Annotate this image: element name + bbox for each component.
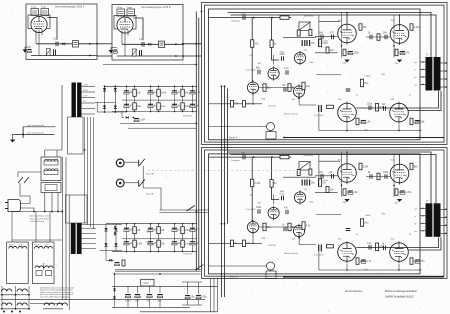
svg-text:1M: 1M	[196, 105, 199, 108]
transformer secondary lead 3 B	[441, 232, 447, 234]
ladder A col 6 wire	[192, 86, 194, 111]
elco row2 box A	[28, 49, 32, 51]
svg-text:25u: 25u	[319, 171, 324, 174]
output cap wire a	[187, 282, 189, 294]
grid cap C8 A	[332, 35, 334, 40]
phase splitter V2a A	[294, 51, 305, 65]
rectifier2 diode D12	[114, 228, 117, 231]
wire selector to channel B	[160, 209, 209, 211]
regulator cap wire 1	[137, 287, 139, 294]
resistor R7 A	[297, 30, 300, 36]
wire input 2 A	[254, 17, 291, 19]
node tone feed B	[298, 237, 300, 239]
resistor R11 A	[326, 47, 329, 53]
ladder B diode top	[114, 226, 117, 229]
transformer secondary lead 0 A	[441, 62, 447, 64]
terminal dot b	[11, 311, 13, 313]
psu B drop wire	[105, 251, 107, 261]
ground T1 B	[344, 199, 349, 202]
output tube T2 A	[390, 23, 409, 45]
ladder B col 5 top node	[182, 223, 184, 225]
transformer tap node 2 A	[422, 76, 423, 77]
svg-text:5k6: 5k6	[319, 32, 324, 35]
power transformer Tr2 frame	[66, 195, 88, 223]
psu interconnect wire 0	[84, 117, 86, 223]
smoothing elco Gl	[134, 118, 139, 120]
wire lamp down A	[270, 131, 272, 132]
ladder A res 1a	[133, 89, 137, 96]
power transformer Tr1	[72, 83, 82, 118]
grid feed wire T2 B	[393, 155, 395, 198]
svg-text:Masse Chassis: Masse Chassis	[284, 114, 298, 116]
node row1 a box A	[89, 43, 91, 45]
anode wire T4 B	[408, 237, 441, 250]
anode resistor R4 A	[288, 84, 291, 92]
grid cap C8 B	[332, 174, 334, 179]
psu B series diode	[109, 259, 112, 262]
ladder B cap 6a	[190, 227, 195, 229]
cathode resistor T3 A	[356, 118, 359, 125]
cathode resistor T4 B	[410, 258, 413, 265]
psu interconnect wire 1	[87, 117, 89, 225]
selector switch S2 contact	[187, 206, 195, 212]
svg-text:1M: 1M	[258, 203, 261, 205]
regulator cap wire 3	[159, 287, 161, 294]
choke node r2a	[1, 308, 3, 310]
cathode drop T3 B	[346, 264, 348, 270]
wire row1 box A	[36, 43, 97, 45]
svg-text:2200u: 2200u	[125, 301, 132, 303]
bus node d	[224, 85, 226, 87]
output cap wire a low	[187, 300, 189, 306]
mains node x44.8	[44, 211, 46, 213]
svg-text:Tr: Tr	[426, 53, 428, 57]
svg-text:erst unter vollem Signal abgle: erst unter vollem Signal abgleichen.	[40, 296, 70, 299]
wire plug to switch 2	[21, 208, 35, 212]
svg-text:Pegel: Pegel	[127, 7, 133, 9]
tube shield box A	[28, 15, 50, 29]
svg-text:0,25u: 0,25u	[323, 180, 329, 182]
tube V A (EF86)	[31, 16, 47, 32]
svg-text:Vorverstarkergruppe 10/26 A: Vorverstarkergruppe 10/26 A	[55, 5, 85, 8]
choke node r2c	[28, 308, 30, 310]
svg-text:100k: 100k	[383, 171, 389, 174]
bus node i	[195, 269, 197, 271]
ladder A col 2 bottom node	[150, 111, 152, 113]
cathode elco T4 A	[415, 120, 420, 122]
svg-text:uber Schutzschalter: uber Schutzschalter	[30, 217, 50, 220]
wire input A	[209, 17, 254, 19]
svg-text:zum Verstarker A: zum Verstarker A	[27, 124, 44, 127]
ladder B cap 4a	[172, 227, 177, 229]
ladder B col 3 bottom node	[158, 251, 160, 253]
ladder B col 6 wire	[192, 224, 194, 252]
wire V1a V1b B	[251, 187, 253, 222]
anode wire T2 B	[231, 155, 437, 204]
ladder A col 0 bottom node	[126, 111, 128, 113]
tb2 inner wire	[43, 263, 45, 270]
rectifier diode D3	[103, 105, 106, 108]
ladder B top rail	[106, 223, 197, 225]
transformer Tr1 tap 0	[82, 86, 95, 88]
svg-text:Stufe B: Stufe B	[229, 274, 238, 278]
anode stem T1 A	[346, 13, 348, 23]
svg-text:Masse Chassis: Masse Chassis	[284, 253, 298, 255]
svg-text:Klang: Klang	[117, 7, 122, 9]
lamp assembly box B	[266, 271, 276, 279]
secondary terminal 2 A	[445, 78, 447, 80]
node row2 a box A	[89, 55, 91, 57]
coupling cap C5 B	[284, 227, 286, 232]
ladder A col 6 bottom node	[192, 111, 194, 113]
bridge2 rail right	[115, 224, 117, 250]
transformer Tr1 tap 5	[82, 113, 95, 115]
psu interconnect wire 2	[90, 117, 92, 227]
svg-text:Pegel: Pegel	[41, 7, 47, 9]
svg-text:Tr: Tr	[426, 199, 428, 203]
bridge1 node a	[104, 85, 106, 87]
screen resistor T1 B	[359, 163, 362, 170]
wire lower grid A	[315, 52, 338, 54]
mains wire left 3	[68, 195, 70, 310]
node row1 edge box A	[96, 43, 98, 45]
rectifier diode D2	[114, 88, 117, 91]
mains filter coil 2	[44, 171, 58, 175]
balance trimmer wiper A	[300, 22, 311, 30]
ground T2 B	[397, 199, 402, 202]
ladder A col 1 bottom node	[134, 111, 136, 113]
heater transformer box TB1	[7, 242, 29, 284]
coupling cap C3 B	[282, 196, 284, 201]
ladder A cap 0a	[124, 90, 129, 92]
transformer secondary lead 0 B	[441, 208, 447, 210]
screen resistor T2 A	[410, 24, 413, 31]
coupling cap C2 A	[258, 70, 260, 75]
tone resistor A	[327, 105, 334, 108]
heater run below boxes	[103, 64, 196, 66]
output tube T1 B	[338, 162, 357, 184]
node lamp B	[283, 276, 285, 278]
ladder A col 1 wire	[134, 86, 136, 111]
svg-text:25u: 25u	[311, 182, 316, 185]
wire input 2 B	[254, 156, 291, 158]
bus wire heater 1	[195, 12, 197, 270]
node lamp A	[283, 137, 285, 139]
ladder B bottom rail	[112, 250, 197, 252]
wire lamp left A	[209, 126, 267, 128]
wire box B to bus row1	[183, 43, 202, 45]
transformer secondary lead 2 A	[441, 78, 447, 80]
bridge1 node d	[114, 111, 116, 113]
terminal dot c	[19, 311, 21, 313]
regulator feed rail 1	[115, 269, 200, 271]
choke vert 2	[15, 286, 17, 309]
anode resistor R4 B	[288, 223, 291, 231]
bus to bottom 2	[213, 279, 215, 312]
svg-text:470: 470	[234, 103, 239, 106]
ladder A bottom rail	[112, 111, 197, 113]
svg-text:50u: 50u	[191, 296, 196, 299]
ladder A col 3 top node	[158, 86, 160, 88]
svg-text:220k: 220k	[367, 103, 373, 106]
elco row2 box B	[114, 49, 118, 51]
heater primary coil TB2 a	[35, 246, 43, 248]
heater secondary coil TB2 a	[35, 266, 43, 268]
wire tone down A	[319, 113, 420, 131]
grid node T2 A	[393, 45, 395, 47]
ladder B col 2 wire	[150, 224, 152, 252]
ladder A col 4 bottom node	[174, 111, 176, 113]
transformer Tr1 tap 4	[82, 108, 95, 110]
cathode pot cluster box A	[47, 49, 51, 56]
filterbox down 2	[51, 193, 53, 212]
cathode resistor T2 B	[395, 189, 398, 196]
supply tap node	[22, 133, 24, 135]
bus node e	[195, 123, 197, 125]
regulator cap 2	[147, 294, 152, 296]
transformer Tr2 tap 0	[82, 227, 96, 229]
svg-text:50u: 50u	[267, 226, 272, 229]
ladder A cap 2b	[148, 103, 153, 105]
regulator cap wire low 2	[149, 299, 151, 308]
choke coil 2	[2, 303, 12, 306]
ladder A res 3b	[157, 103, 161, 110]
resistor R8 A	[309, 30, 312, 36]
cathode resistor T2 A	[395, 49, 398, 56]
svg-text:Siebkette: Siebkette	[183, 115, 193, 118]
node row1 a box B	[175, 43, 177, 45]
wire tone feed B	[298, 234, 300, 245]
svg-text:Stufe A: Stufe A	[229, 135, 238, 139]
regulator cap wire low 3	[159, 299, 161, 308]
wire jack2 to switch	[125, 182, 139, 184]
ladder A col 3 bottom node	[158, 111, 160, 113]
wire anode out box B	[134, 18, 144, 40]
regulator output rail	[112, 285, 218, 287]
channel A outer boundary	[202, 3, 448, 145]
grid node T1 A	[341, 45, 343, 47]
rectifier diode D1	[103, 88, 106, 91]
svg-text:4,7k: 4,7k	[306, 224, 311, 227]
node input a B	[253, 156, 255, 158]
filterbox up 1	[44, 150, 46, 157]
wire V1a V1b A	[251, 47, 253, 82]
wire switch up	[18, 172, 41, 177]
phase splitter V2a B	[294, 190, 305, 204]
bottom long rail	[1, 298, 206, 300]
regulator cap 1	[135, 294, 140, 296]
selector switch S1a contact	[139, 159, 145, 166]
transformer Tr1 tap 3	[82, 102, 95, 104]
svg-text:0,1u: 0,1u	[139, 38, 144, 41]
ladder B col 4 bottom node	[174, 251, 176, 253]
resistor R7 B	[297, 170, 300, 176]
cathode resistor T1 A	[343, 49, 346, 56]
tb top link wire	[12, 239, 62, 241]
shielded cable dashed	[148, 169, 296, 171]
bus to bottom 1	[210, 279, 212, 312]
resistor bottom row 1 A	[231, 101, 234, 108]
svg-text:ECC83: ECC83	[269, 106, 277, 108]
wire screen supply B	[318, 155, 320, 186]
choke coil 0	[2, 289, 12, 292]
tb feed wire 2	[35, 212, 37, 243]
interstage resistor Rb B	[375, 243, 378, 251]
mains bottom wire	[12, 211, 62, 213]
grid cap T2 Cb B	[385, 174, 387, 179]
bus node b	[195, 64, 197, 66]
choke right link	[30, 303, 63, 305]
heater rect TB2 b	[46, 271, 52, 276]
svg-text:0,25u: 0,25u	[406, 191, 413, 194]
output transformer B	[426, 203, 441, 237]
trimmer pot P2 box A	[41, 9, 49, 16]
ladder B cap 2b	[148, 241, 153, 243]
svg-text:0,25u: 0,25u	[255, 182, 262, 185]
ladder B col 5 wire	[182, 224, 184, 252]
resistor above row2 B	[360, 219, 363, 227]
ground symbol box B	[109, 50, 114, 53]
ladder A col 3 wire	[158, 86, 160, 111]
ladder B cap 0a	[124, 227, 129, 229]
ground symbol mains tap	[10, 140, 15, 143]
coupling cap C5 A	[284, 87, 286, 92]
svg-text:285V: 285V	[83, 90, 88, 92]
anode wire T2 A	[231, 15, 437, 57]
regulator cap wire low 0	[127, 299, 129, 308]
grid feed wire T1 B	[341, 152, 343, 197]
anode resistor R3 B	[263, 223, 266, 231]
svg-text:0,5M: 0,5M	[363, 165, 368, 168]
cathode elco T2 A	[400, 51, 405, 53]
bus node l	[84, 149, 86, 151]
svg-text:Klang: Klang	[31, 7, 36, 9]
tone resistor B	[327, 245, 334, 248]
grid resistor T2 A	[377, 34, 380, 41]
anode resistor R3 A	[263, 84, 266, 92]
wire tube to row2 box A	[38, 40, 40, 56]
interstage resistor Rb A	[375, 104, 378, 112]
svg-text:0,5M: 0,5M	[137, 243, 142, 246]
transformer primary tap 3 B	[420, 230, 426, 232]
anode wire T3 A	[356, 91, 438, 108]
anode stem T2 B	[399, 155, 401, 163]
power transformer Tr2	[71, 223, 82, 254]
wire R2 up A	[271, 18, 273, 40]
svg-text:1M: 1M	[258, 63, 261, 65]
diode box A	[62, 43, 65, 46]
ladder A col 5 bottom node	[182, 111, 184, 113]
pot cluster row1 box B	[159, 41, 165, 47]
wire screen supply A	[318, 15, 320, 46]
svg-text:0,1u: 0,1u	[161, 105, 166, 108]
node rail T3 B	[346, 269, 348, 271]
heater rect TB2 a	[36, 271, 42, 276]
wire R1 up A	[251, 18, 253, 40]
cap above row2 B	[346, 229, 351, 231]
ladder A cap 2a	[148, 90, 153, 92]
wire V1b up B	[273, 195, 275, 205]
coupling cap C3 A	[282, 56, 284, 61]
regulator rail	[115, 273, 200, 275]
anode rail node b A	[399, 14, 401, 16]
bridge1 bottom wire	[97, 111, 126, 113]
pot cluster row1 box A	[73, 41, 79, 47]
svg-text:Auf der Klemme: Auf der Klemme	[345, 290, 363, 293]
ladder B diode bot	[114, 232, 117, 235]
ladder A cap 6a	[190, 90, 195, 92]
ladder B cap 2a	[148, 227, 153, 229]
ladder B col 2 bottom node	[150, 251, 152, 253]
svg-text:6,3V: 6,3V	[83, 96, 88, 98]
ladder B res 5a	[181, 227, 185, 234]
svg-text:50u: 50u	[383, 32, 388, 35]
supply tap wire 1	[23, 126, 55, 128]
wire tone feed A	[298, 95, 300, 106]
wire R2 up B	[271, 157, 273, 179]
wire jack1 to switch	[125, 161, 139, 163]
ladder B col 4 top node	[174, 223, 176, 225]
choke row right wire	[43, 308, 63, 310]
output tube T4 A	[390, 102, 409, 124]
wire selector to channel B 2	[160, 211, 209, 213]
cathode caps pair B	[302, 180, 309, 186]
channel B middle boundary	[205, 150, 445, 276]
ladder A res 1b	[133, 103, 137, 110]
svg-text:7812: 7812	[143, 282, 149, 285]
input coupling cap B	[243, 155, 245, 160]
svg-text:Kanal B: Kanal B	[146, 194, 154, 196]
lamp assembly circle A	[267, 123, 275, 131]
secondary terminal 0 A	[445, 62, 447, 64]
mains filter box	[41, 157, 61, 181]
wire tone down B	[319, 252, 420, 270]
transformer primary tap 0 B	[420, 207, 426, 209]
psu B low wire 2	[115, 270, 201, 272]
wire lower grid B	[315, 191, 338, 193]
transformer tap node 0 A	[422, 61, 423, 62]
ladder B col 1 wire	[134, 224, 136, 252]
resistor R6 A	[318, 39, 321, 47]
transformer secondary lead 2 B	[441, 224, 447, 226]
preamp enclosure box B	[112, 5, 183, 61]
svg-text:6,3V: 6,3V	[45, 245, 50, 247]
trimmer pot P2 box B	[127, 9, 135, 16]
resistor bottom row 1 B	[231, 240, 234, 247]
bus node j	[114, 273, 116, 275]
cathode elco T3 B	[361, 259, 366, 261]
anode wire T3 B	[356, 237, 438, 247]
wire plug to switch 1	[20, 183, 30, 204]
bus node k	[159, 273, 161, 275]
wire anode out box A	[48, 18, 58, 40]
bridge1 node c	[104, 111, 106, 113]
bridge2 bottom wire	[100, 250, 123, 252]
svg-text:100k: 100k	[354, 52, 360, 55]
transformer Tr1 tap 2	[82, 97, 95, 99]
mains plug	[8, 200, 21, 212]
node rail T4 A	[398, 130, 400, 132]
wire pin to row1 box B	[121, 36, 123, 44]
ladder A mid rail	[122, 99, 197, 101]
ladder B mid rail	[122, 238, 197, 240]
choke coil 3	[17, 303, 27, 306]
ladder A cap 6b	[190, 103, 195, 105]
mains wire left 2	[65, 157, 67, 300]
interstage cap Ca A	[369, 106, 371, 111]
resistor R11 B	[326, 187, 329, 193]
cathode elco T1 B	[348, 190, 353, 192]
